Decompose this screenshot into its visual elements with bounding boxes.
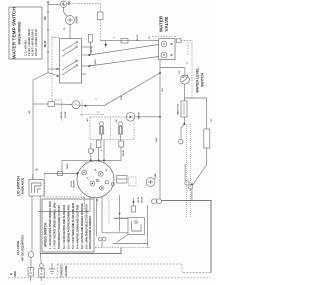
wire: left rail L1	[32, 80, 34, 104]
wire: right edge vertical upper	[206, 98, 208, 129]
svg-text:OR-W: OR-W	[91, 46, 93, 53]
wire: solenoid drop left	[101, 134, 103, 140]
motor lead labels	[138, 196, 144, 203]
wire: hot water valve diagonal	[89, 45, 158, 56]
frame dashed bottom outer	[8, 277, 211, 279]
svg-text:SWITCH SHOWN IN NORMAL: SWITCH SHOWN IN NORMAL	[89, 215, 92, 249]
dashed above valve box	[152, 35, 176, 37]
wire: motor bottom drop 3	[101, 197, 103, 233]
wire: right bus from valve	[159, 60, 161, 68]
start winding resistor	[96, 140, 101, 148]
wire: dashed top run to capacitor box	[67, 4, 101, 13]
svg-text:1/4 HP: 1/4 HP	[76, 16, 79, 24]
wire: trunk jog to left rail	[33, 69, 48, 80]
wire: L1 supply trunk top	[44, 1, 49, 69]
wire: bottom link y243	[113, 243, 148, 245]
svg-text:TIMER: TIMER	[139, 112, 141, 119]
solenoid enclosure dashed	[90, 117, 134, 140]
svg-text:BK-W: BK-W	[138, 197, 140, 203]
wire: relay riser	[133, 198, 135, 206]
junction dots motor top	[90, 160, 105, 162]
start relay small box	[132, 206, 136, 212]
wire: switch exit 1	[82, 46, 94, 48]
agitate solenoid	[99, 122, 103, 134]
console boundary dashed stub	[52, 37, 60, 39]
wire: dark link	[114, 217, 128, 219]
svg-text:HP SO EQUIPPED: HP SO EQUIPPED	[21, 234, 25, 260]
junction dot right bus	[159, 72, 161, 74]
wire: cluster links	[117, 178, 128, 180]
wire: below run capacitor	[101, 241, 103, 247]
wire: lid switch bottom right drop	[39, 196, 41, 254]
wire: branch R down	[40, 254, 41, 264]
WATER VALVE label	[159, 15, 170, 32]
svg-text:S-3 = FAST WASH AND SLOW SPIN: S-3 = FAST WASH AND SLOW SPIN RUN	[72, 203, 75, 249]
resistor R1 right edge	[204, 129, 210, 148]
wire: main motor feed horizontal	[33, 103, 44, 105]
wire: resistor drop	[98, 148, 100, 160]
wire: dashed drop b	[190, 124, 192, 218]
wire: valve feed horizontal	[101, 40, 159, 42]
thermal fuse box right of valve	[177, 39, 182, 43]
wire: dashed drop a	[186, 124, 188, 218]
wire: solenoid drop right	[120, 134, 122, 141]
LID SWITCH label	[17, 176, 25, 196]
wire: plug lead left	[30, 276, 32, 281]
svg-text:OR-V: OR-V	[95, 59, 97, 65]
pressure switch box	[177, 101, 188, 117]
wire: right bus down	[159, 68, 161, 198]
wire: feed dashed into solenoid box	[80, 114, 104, 116]
wire: switch exit 2 with junction dot	[82, 54, 91, 56]
wire: valve aux dashed	[187, 42, 189, 55]
capacitor C2 box top	[88, 35, 92, 56]
capacitor C1 box	[98, 12, 104, 20]
arrowhead entry upper	[57, 68, 60, 70]
frame dashed right step	[182, 264, 211, 273]
WATER LEVEL SWITCH label	[196, 67, 205, 93]
plug body left	[28, 268, 34, 277]
wire: M2 down to switch box	[69, 25, 71, 39]
svg-text:2 - FAST AGITATE SPEED NORMAL: 2 - FAST AGITATE SPEED NORMAL SPIN	[54, 202, 57, 249]
junction arrow below valve feed	[105, 44, 108, 47]
wire: left rail to lid switch	[32, 104, 34, 180]
relay box bottom	[128, 218, 145, 235]
pump motor M5	[146, 178, 155, 187]
fuse F1	[28, 252, 34, 258]
console boundary dashed drop	[84, 197, 86, 211]
svg-text:BU-W: BU-W	[123, 150, 125, 156]
wire: baseline y211	[38, 210, 90, 212]
inline connector left	[58, 172, 63, 176]
wire: base rail	[40, 247, 121, 253]
wire: right edge vertical lower	[206, 148, 208, 165]
label: exit wires	[91, 46, 97, 65]
SPEED SWITCH legend box	[42, 199, 94, 252]
wire: fuse to plug body	[30, 257, 32, 267]
svg-text:(UNBALANCE): (UNBALANCE)	[22, 177, 25, 194]
wire: level switch feed	[184, 68, 186, 76]
wire: motor top riser	[103, 140, 105, 163]
svg-text:T-BU: T-BU	[121, 95, 123, 100]
wire: protector out to diagonal riser	[80, 104, 104, 107]
THRUST FRAME label	[60, 265, 69, 278]
svg-text:GND: GND	[13, 271, 17, 277]
svg-text:M: M	[129, 116, 133, 118]
junction circles cluster	[105, 181, 114, 186]
svg-text:1 - SLOW AGITATE SPEED NORMAL: 1 - SLOW AGITATE SPEED NORMAL SPIN	[49, 201, 52, 249]
junction dot at protector output	[85, 105, 87, 107]
wire: right edge riser	[184, 97, 206, 99]
brake switch box	[117, 176, 128, 184]
wire: temp switch entry lower diagonal	[48, 73, 60, 76]
lid switch box	[29, 180, 44, 197]
wire: bus into capacitor	[159, 197, 161, 199]
wire: timer M3 to right bus	[135, 116, 160, 118]
console dashed inner drop	[81, 100, 83, 117]
console boundary dashed left	[45, 174, 85, 197]
wire: box diagonal to capacitor	[117, 235, 128, 243]
spin solenoid	[118, 122, 122, 134]
svg-text:WATER LEVEL: WATER LEVEL	[196, 67, 200, 93]
wire: cluster riser	[184, 164, 186, 181]
arrowhead entry lower	[57, 75, 60, 77]
junction dot relay riser	[133, 201, 135, 203]
wire: lid switch top stubs	[32, 174, 34, 180]
svg-text:BK: BK	[68, 1, 71, 5]
wire: protector to motor protector circle	[55, 103, 73, 106]
interlock box	[119, 141, 124, 147]
wire: switch exit 3 with junction dot	[82, 65, 91, 67]
svg-text:VALVE: VALVE	[164, 17, 169, 32]
svg-text:S-5 = AGITATE AND NORMAL SPIN: S-5 = AGITATE AND NORMAL SPIN RUN	[81, 203, 84, 249]
svg-text:15A FUSE: 15A FUSE	[16, 241, 20, 255]
ground chassis	[49, 263, 55, 274]
run capacitor terminals	[98, 237, 106, 241]
wire: to aux switch	[181, 124, 184, 140]
svg-text:WATER LVL: WATER LVL	[177, 103, 180, 115]
svg-text:WATER: WATER	[159, 15, 164, 32]
junction dot right bus at M3	[159, 116, 161, 118]
wire: capacitor link dark	[162, 200, 212, 272]
svg-text:THRUST: THRUST	[60, 265, 64, 278]
svg-text:BK: BK	[44, 16, 47, 20]
wire: cold water valve diagonal	[89, 57, 158, 67]
wire: motor bottom drop 2	[96, 198, 98, 237]
timer motor M1	[60, 1, 71, 7]
wire: below pressure box	[183, 117, 185, 124]
svg-text:#2 W-C • HO-BU OR-V: #2 W-C • HO-BU OR-V	[31, 29, 35, 56]
wire: dashed bottom stub	[95, 247, 150, 249]
wire: valve top dashed to right	[181, 41, 192, 99]
wire: cross link y233	[102, 232, 128, 234]
svg-text:PUMP: PUMP	[155, 172, 157, 178]
pump cluster right	[185, 165, 207, 200]
overload protector box	[48, 102, 55, 107]
wire: level switch to pressure box	[183, 84, 185, 101]
aux switch circle	[179, 140, 183, 144]
dashed divider in solenoid box	[110, 117, 112, 140]
wire: switch exit 4	[82, 73, 87, 75]
svg-text:LID SWITCH: LID SWITCH	[17, 176, 21, 196]
legend box: WATER TEMP SWITCH table	[9, 7, 42, 59]
wire: right bus horizontal to level switch	[160, 67, 184, 69]
svg-text:WASH-RINSE: WASH-RINSE	[18, 21, 22, 45]
svg-text:SPEED SWITCH: SPEED SWITCH	[44, 222, 48, 247]
console dashed jog mid	[52, 100, 62, 122]
svg-text:W-BK: W-BK	[67, 163, 69, 169]
thermostat box on valve feed	[121, 39, 128, 44]
wire: temp switch entry upper	[48, 68, 60, 70]
15A fuse label	[16, 234, 25, 260]
svg-text:FRAME: FRAME	[64, 266, 68, 277]
svg-text:BU-GY: BU-GY	[137, 34, 139, 41]
wire: timer motor left lead	[48, 4, 60, 6]
svg-text:OR-BK: OR-BK	[142, 196, 144, 203]
svg-text:#3 H-C • HO-BU GY-W: #3 H-C • HO-BU GY-W	[34, 29, 38, 56]
wire: motor bottom drop 1	[89, 197, 91, 211]
plug body right	[39, 269, 45, 278]
frame dashed left stub	[57, 264, 59, 278]
svg-text:W: W	[149, 36, 151, 38]
junction dot below pressure box	[183, 123, 185, 125]
wire: motor drop 4	[108, 196, 110, 225]
svg-text:C-C • HO-BU: C-C • HO-BU	[24, 40, 28, 56]
corner terminal labels	[9, 271, 17, 277]
svg-text:P-BK: P-BK	[156, 137, 158, 142]
frame dashed bottom inner	[58, 263, 183, 265]
wire: timer motor to drive coupling	[64, 7, 68, 16]
wire: right mid vertical	[119, 195, 121, 232]
clutch box dashed	[129, 177, 137, 186]
wire: protector drop	[90, 154, 92, 161]
terminal dot motor left	[77, 172, 79, 174]
svg-text:BK-W: BK-W	[44, 40, 47, 47]
wire: plug lead right	[40, 277, 42, 281]
svg-text:W: W	[93, 149, 95, 151]
wire: right drop pair	[147, 205, 149, 248]
wire: stub below feed	[105, 41, 107, 44]
wire: motor left lead	[44, 173, 77, 175]
lamp circle branch R	[39, 264, 43, 268]
wire: capacitor down to water valve feed	[100, 20, 102, 41]
wire: feed into protector	[44, 103, 48, 105]
svg-text:#1 H-C • HO-BU OR-W: #1 H-C • HO-BU OR-W	[27, 28, 31, 56]
wire color labels scattered	[29, 27, 213, 179]
drive motor M4	[71, 161, 114, 198]
svg-text:MOTOR: MOTOR	[74, 180, 76, 188]
water temp switch contact box	[60, 39, 82, 83]
wire: diagonal riser to right bus	[104, 73, 160, 106]
thermal protector T1	[88, 148, 93, 153]
wire: lid switch bottom left drop	[31, 196, 33, 252]
svg-text:1/2 HP: 1/2 HP	[65, 111, 67, 118]
water valve box	[159, 39, 175, 60]
timer motor M3	[126, 112, 140, 121]
motor protector P1	[61, 101, 80, 119]
console boundary dashed upper	[51, 36, 53, 100]
svg-text:SWITCH: SWITCH	[201, 73, 205, 88]
wire: interlock down and left	[62, 147, 121, 172]
valve feed labels	[114, 34, 151, 41]
svg-text:N: N	[9, 273, 13, 275]
water level switch S2	[179, 70, 189, 84]
wire: protector top stub	[90, 143, 92, 148]
motor M2 small	[66, 16, 79, 25]
start capacitor C3	[152, 199, 162, 204]
junction dot dark link	[119, 213, 121, 215]
